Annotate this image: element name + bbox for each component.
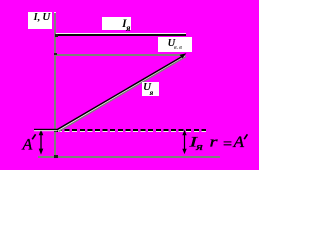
svg-text:A: A [232,134,244,151]
svg-text:r: r [210,134,218,150]
svg-text:=: = [222,137,233,152]
svg-text:A: A [22,137,33,154]
svg-text:я: я [195,141,203,153]
